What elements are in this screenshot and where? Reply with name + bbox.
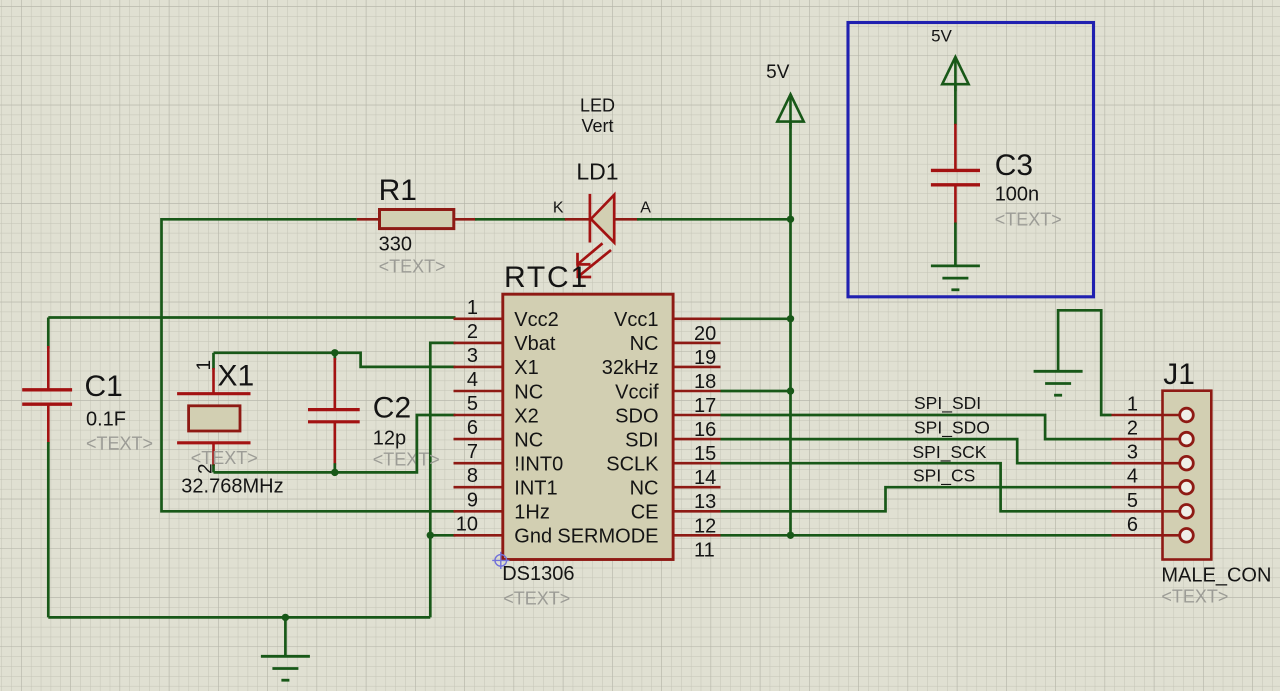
svg-text:11: 11 <box>694 539 715 561</box>
wire SDI pin15 to J1 pin3 <box>721 439 1112 463</box>
svg-text:CE: CE <box>631 502 659 524</box>
svg-text:X1: X1 <box>514 357 538 379</box>
svg-text:<TEXT>: <TEXT> <box>373 450 440 470</box>
wire R1 to LED cathode <box>475 218 566 221</box>
svg-text:13: 13 <box>694 491 716 513</box>
wire pin1 Vcc2 row to C1 rail <box>48 316 455 319</box>
power symbol 5V in box <box>942 57 968 91</box>
svg-text:SCLK: SCLK <box>606 454 659 476</box>
connector J1 pin stubs <box>1112 415 1181 535</box>
svg-text:SPI_SDI: SPI_SDI <box>914 393 981 414</box>
wire pin5 X2 bottom rail <box>214 415 456 472</box>
wire LED A stub <box>614 218 638 221</box>
wire C2 top lead red <box>333 358 336 410</box>
svg-text:18: 18 <box>694 371 716 393</box>
ground symbol bottom <box>261 656 310 680</box>
wire ground hook to J1 pin1 <box>1058 310 1111 415</box>
svg-text:LD1: LD1 <box>576 159 618 185</box>
junction bottom rail to ground <box>282 614 289 621</box>
svg-text:C1: C1 <box>85 370 123 403</box>
svg-text:X1: X1 <box>218 360 255 393</box>
wire ground drop <box>284 617 287 656</box>
wire pin20 Vcc1 to 5V rail <box>721 317 791 320</box>
svg-text:12: 12 <box>694 515 716 537</box>
svg-text:NC: NC <box>630 333 659 355</box>
wire 5V vertical rail <box>789 122 792 536</box>
junction 5V rail with LED anode wire <box>787 216 794 223</box>
ground symbol near J1 <box>1034 371 1083 395</box>
svg-text:<TEXT>: <TEXT> <box>379 257 446 277</box>
junction pin10 Gnd with Vbat vertical <box>427 532 434 539</box>
svg-text:9: 9 <box>467 489 478 511</box>
svg-text:R1: R1 <box>379 174 417 207</box>
connector J1 body <box>1163 391 1212 560</box>
svg-text:SPI_CS: SPI_CS <box>913 465 975 486</box>
svg-text:K: K <box>553 200 564 217</box>
svg-text:NC: NC <box>514 429 543 451</box>
junction C2 bottom with X2 rail <box>331 469 338 476</box>
svg-text:2: 2 <box>1127 418 1138 440</box>
pin numbers of J1 <box>1127 394 1138 536</box>
svg-text:Gnd: Gnd <box>514 526 552 548</box>
junction 5V rail with Vccif pin17 <box>787 387 794 394</box>
wire pin10 Gnd to vertical <box>430 534 455 537</box>
wire pin17 Vccif to 5V rail <box>721 390 791 393</box>
wire C2 top lead green stub <box>333 353 336 360</box>
capacitor C3 <box>931 170 980 184</box>
svg-text:Vbat: Vbat <box>514 333 556 355</box>
svg-text:2: 2 <box>467 321 478 343</box>
svg-text:1: 1 <box>1127 394 1138 416</box>
svg-text:A: A <box>640 200 651 217</box>
svg-text:4: 4 <box>467 369 478 391</box>
svg-text:<TEXT>: <TEXT> <box>1161 587 1228 607</box>
wire C1 rail upper green <box>47 318 50 349</box>
svg-text:!INT0: !INT0 <box>514 454 563 476</box>
svg-text:330: 330 <box>379 234 412 256</box>
svg-text:19: 19 <box>694 347 716 369</box>
wire C3 bottom lead red <box>954 185 957 224</box>
svg-text:8: 8 <box>467 465 478 487</box>
svg-text:Vert: Vert <box>581 116 613 136</box>
junction C2 top with X1 rail <box>331 349 338 356</box>
svg-text:Vcc1: Vcc1 <box>614 309 658 331</box>
op-amp style chip body U1 RTC1 DS1306 pin stubs <box>454 319 721 536</box>
wire C2 bottom lead green <box>333 463 336 472</box>
svg-text:1Hz: 1Hz <box>514 502 550 524</box>
svg-text:Vccif: Vccif <box>615 381 659 403</box>
svg-text:C2: C2 <box>373 392 411 425</box>
junction 5V rail with Vcc1 pin20 <box>787 315 794 322</box>
svg-text:12p: 12p <box>373 428 406 450</box>
svg-text:DS1306: DS1306 <box>502 563 574 585</box>
svg-text:SERMODE: SERMODE <box>557 526 658 548</box>
svg-text:NC: NC <box>630 478 659 500</box>
blue annotation box around C3 <box>848 23 1094 297</box>
svg-text:<TEXT>: <TEXT> <box>503 589 570 609</box>
wire C1 rail lower green <box>47 442 50 617</box>
wire X1 top lead red <box>212 368 215 394</box>
svg-text:16: 16 <box>694 419 716 441</box>
origin marker of RTC1 <box>492 552 509 569</box>
svg-text:Vcc2: Vcc2 <box>514 309 558 331</box>
wire X1 bottom lead red <box>212 443 215 466</box>
svg-text:X2: X2 <box>514 405 538 427</box>
svg-text:6: 6 <box>1127 514 1138 536</box>
wire C1 bottom lead <box>47 404 50 443</box>
svg-text:SDO: SDO <box>615 405 658 427</box>
svg-text:NC: NC <box>514 381 543 403</box>
wire CE pin12 to J1 pin4 <box>721 487 1112 511</box>
wire SERMODE pin11 to J1 pin6 <box>721 534 1112 537</box>
pin names of RTC1 <box>514 309 659 547</box>
svg-text:3: 3 <box>467 345 478 367</box>
wire C2 bottom lead red <box>333 422 336 465</box>
svg-text:<TEXT>: <TEXT> <box>995 210 1062 230</box>
junction 5V rail with SERMODE row <box>787 532 794 539</box>
svg-text:15: 15 <box>694 443 716 465</box>
svg-text:SDI: SDI <box>625 429 658 451</box>
svg-text:10: 10 <box>456 513 478 535</box>
svg-text:C3: C3 <box>995 149 1033 182</box>
svg-text:1: 1 <box>467 297 478 319</box>
svg-text:SPI_SCK: SPI_SCK <box>913 442 987 463</box>
ground symbol under C3 <box>931 266 980 290</box>
capacitor C1 <box>22 390 72 404</box>
svg-text:5: 5 <box>1127 490 1138 512</box>
chip RTC1 body <box>503 294 673 559</box>
wire X1 top lead green <box>212 353 215 370</box>
wire SCLK pin14 to J1 pin5 <box>721 463 1112 511</box>
wire C3 top lead red <box>954 124 957 171</box>
wire LED K stub <box>565 218 590 221</box>
svg-text:J1: J1 <box>1163 358 1195 391</box>
svg-text:32kHz: 32kHz <box>602 357 659 379</box>
svg-text:5V: 5V <box>931 27 952 46</box>
svg-text:RTC1: RTC1 <box>504 261 589 294</box>
power symbol 5V <box>777 94 803 128</box>
svg-text:INT1: INT1 <box>514 478 557 500</box>
svg-text:LED: LED <box>580 96 615 116</box>
svg-text:<TEXT>: <TEXT> <box>191 448 258 468</box>
svg-text:32.768MHz: 32.768MHz <box>181 476 283 498</box>
wire X1 bottom lead green <box>212 465 215 473</box>
wire bottom ground rail <box>48 616 430 619</box>
wire C1 top lead <box>47 346 50 389</box>
capacitor C2 <box>308 410 360 422</box>
wire R1 left stub <box>357 218 380 221</box>
svg-text:100n: 100n <box>995 183 1039 205</box>
svg-text:5V: 5V <box>766 62 790 83</box>
svg-text:20: 20 <box>694 323 716 345</box>
svg-text:7: 7 <box>467 441 478 463</box>
svg-text:MALE_CON: MALE_CON <box>1161 564 1271 586</box>
wire C3 top green <box>954 86 957 126</box>
svg-text:5: 5 <box>467 393 478 415</box>
svg-text:6: 6 <box>467 417 478 439</box>
wire R1 left to pin9 1Hz <box>162 219 456 511</box>
wire LED anode to 5V rail <box>637 218 791 221</box>
svg-text:3: 3 <box>1127 442 1138 464</box>
svg-text:14: 14 <box>694 467 716 489</box>
svg-text:1: 1 <box>194 360 215 371</box>
LED LD1 <box>578 194 615 278</box>
svg-text:4: 4 <box>1127 466 1138 488</box>
wire pin3 X1 top rail <box>214 353 456 367</box>
svg-text:17: 17 <box>694 395 716 417</box>
connector J1 pin circles <box>1180 408 1194 542</box>
resistor R1 <box>380 210 454 229</box>
wire C3 bottom green <box>954 223 957 266</box>
wire pin2 Vbat to ground rail <box>430 343 455 618</box>
svg-text:SPI_SDO: SPI_SDO <box>914 418 990 439</box>
crystal X1 <box>177 394 250 443</box>
wire SDO pin16 to J1 pin2 <box>721 415 1112 439</box>
pin numbers of RTC1 <box>456 297 717 562</box>
wire R1 right stub <box>454 218 477 221</box>
svg-text:0.1F: 0.1F <box>86 408 126 430</box>
svg-text:<TEXT>: <TEXT> <box>86 434 153 454</box>
